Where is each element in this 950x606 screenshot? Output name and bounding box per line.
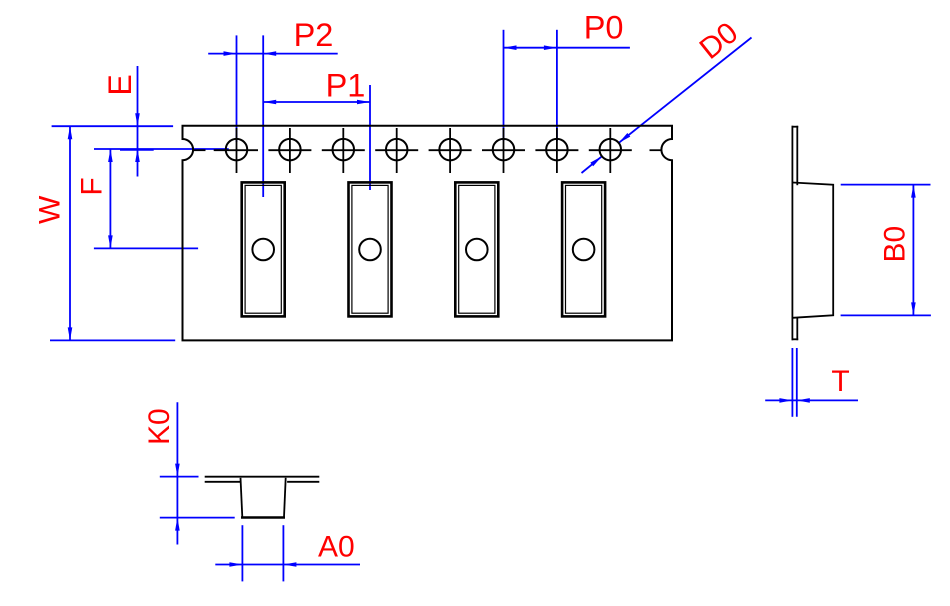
svg-text:F: F xyxy=(75,177,108,195)
svg-text:A0: A0 xyxy=(318,531,355,564)
svg-text:K0: K0 xyxy=(143,408,176,445)
svg-text:B0: B0 xyxy=(879,226,912,263)
svg-text:P1: P1 xyxy=(326,68,366,104)
svg-text:P2: P2 xyxy=(294,17,334,53)
svg-text:E: E xyxy=(102,74,138,95)
svg-text:W: W xyxy=(34,195,67,224)
svg-text:P0: P0 xyxy=(584,10,624,46)
svg-text:T: T xyxy=(831,365,849,398)
